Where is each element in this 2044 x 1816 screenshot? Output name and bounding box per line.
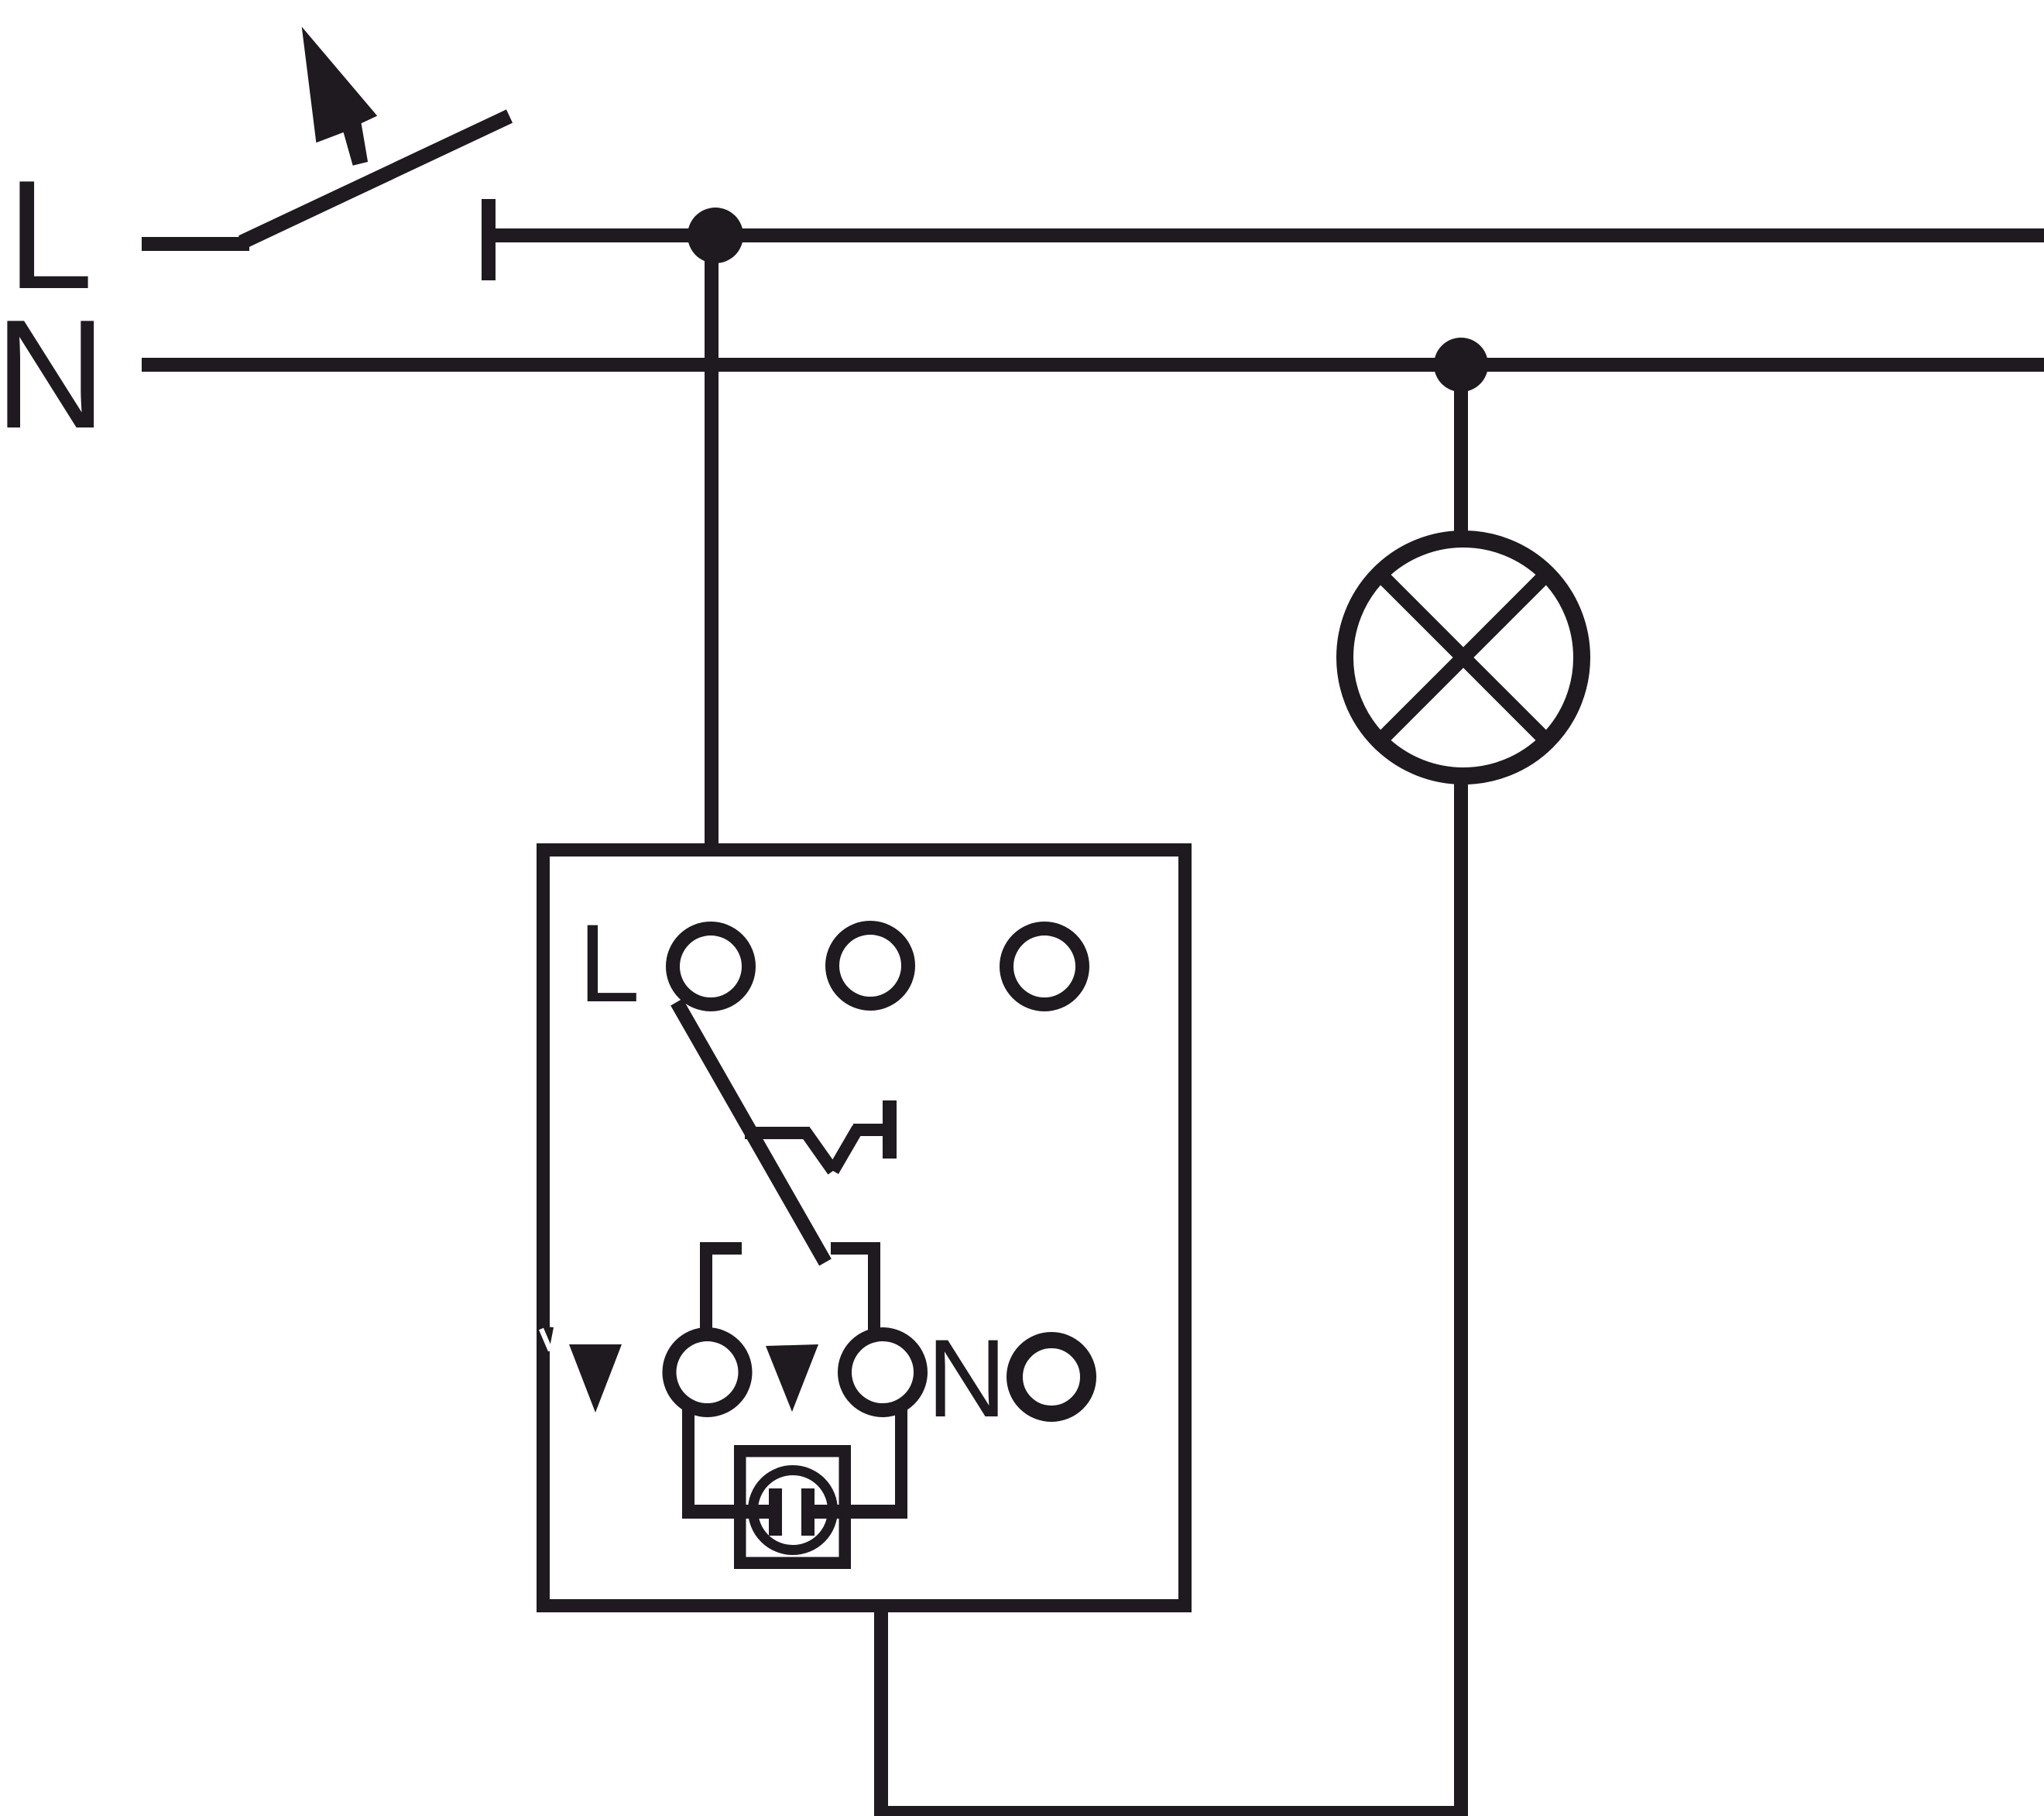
svg-text:N: N [0,288,106,461]
svg-text:N: N [927,1317,1007,1440]
svg-text:L: L [578,902,640,1025]
